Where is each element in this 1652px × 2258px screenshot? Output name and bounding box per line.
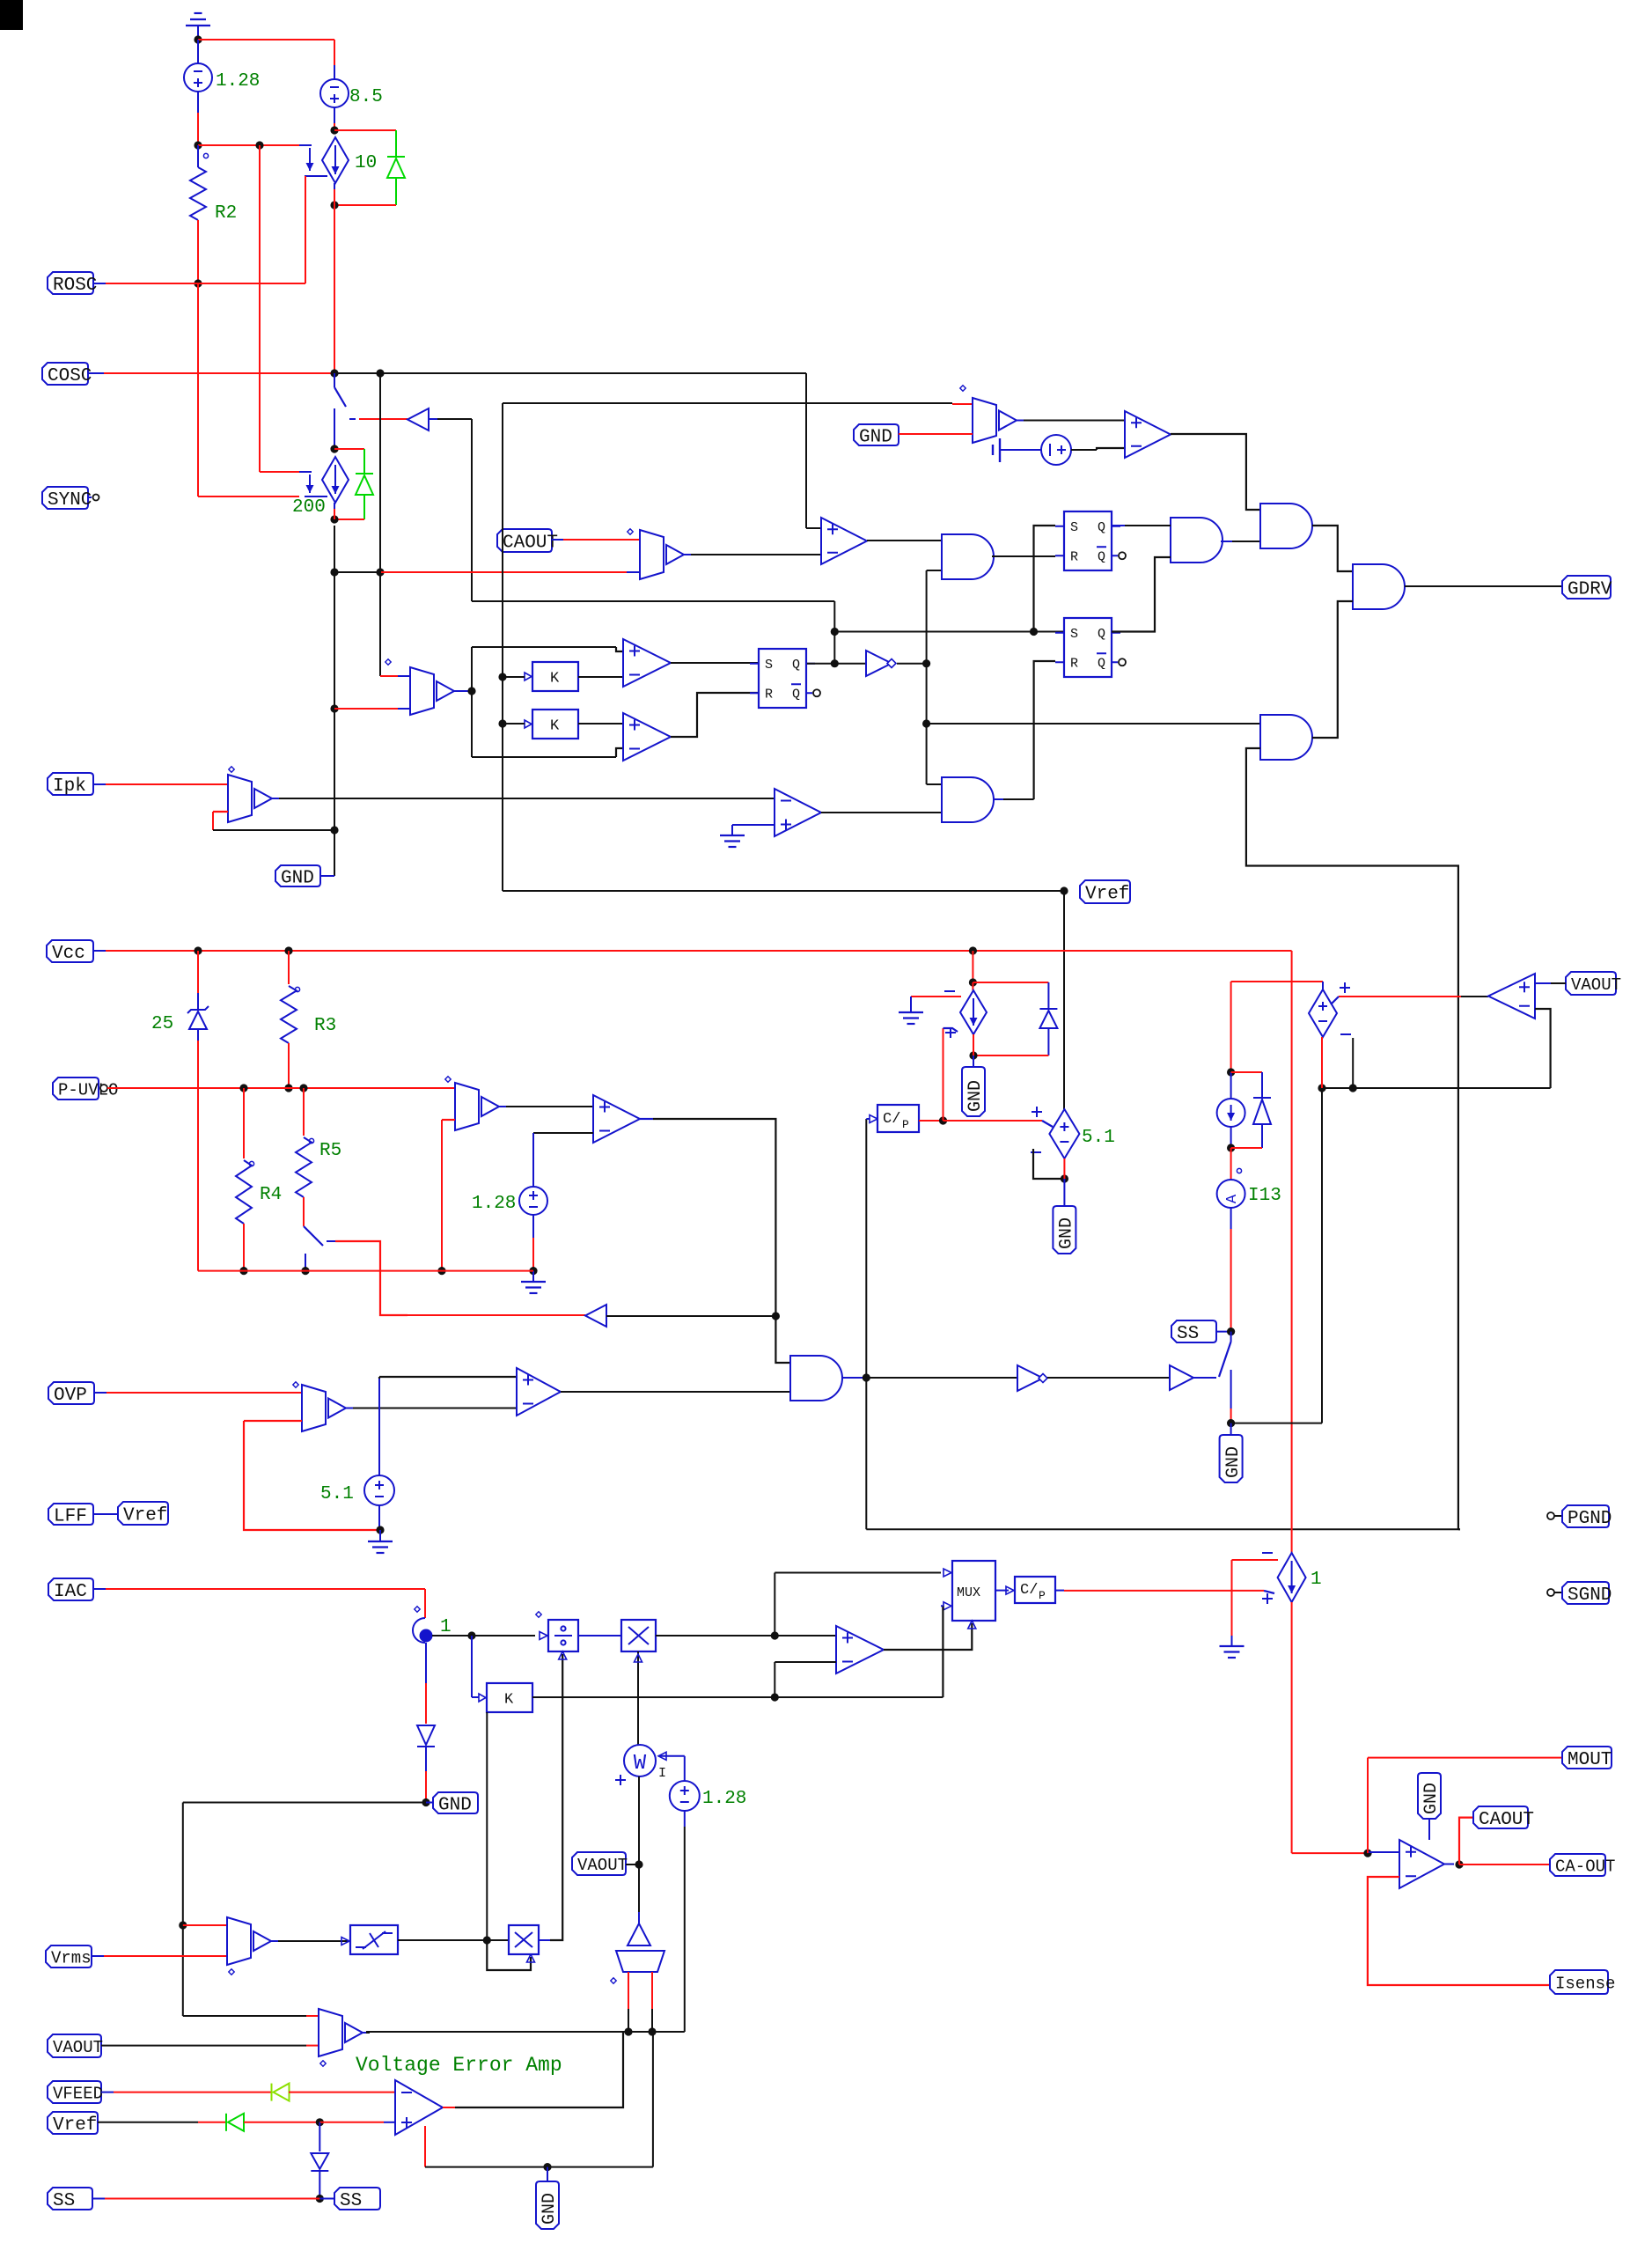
svg-text:CAOUT: CAOUT: [503, 533, 558, 554]
svg-text:P: P: [1039, 1589, 1046, 1602]
svg-text:SS: SS: [53, 2191, 75, 2211]
svg-text:Vref: Vref: [123, 1506, 167, 1526]
svg-text:GND: GND: [966, 1080, 986, 1112]
svg-text:Isense: Isense: [1555, 1974, 1615, 1993]
svg-text:OVP: OVP: [54, 1386, 87, 1406]
svg-text:5.1: 5.1: [1082, 1128, 1115, 1148]
svg-text:SYNC: SYNC: [48, 490, 92, 511]
svg-text:MOUT: MOUT: [1568, 1750, 1612, 1770]
svg-text:Q: Q: [1098, 549, 1105, 564]
svg-text:Q: Q: [1098, 520, 1105, 535]
svg-text:5.1: 5.1: [320, 1484, 354, 1504]
svg-text:VAOUT: VAOUT: [577, 1856, 628, 1875]
svg-text:K: K: [550, 718, 560, 735]
svg-text:Q: Q: [1098, 627, 1105, 642]
svg-text:PGND: PGND: [1568, 1509, 1612, 1529]
svg-text:K: K: [550, 671, 560, 688]
svg-text:P: P: [902, 1118, 909, 1131]
svg-text:Q: Q: [792, 687, 800, 702]
svg-text:ROSC: ROSC: [53, 276, 97, 296]
svg-text:25: 25: [151, 1014, 173, 1034]
svg-text:A: A: [1224, 1194, 1241, 1203]
svg-text:GND: GND: [540, 2193, 560, 2225]
svg-text:Vcc: Vcc: [52, 944, 85, 964]
svg-text:R: R: [1070, 549, 1078, 564]
svg-text:C/: C/: [1020, 1582, 1038, 1599]
svg-text:1.28: 1.28: [472, 1194, 516, 1214]
svg-text:SGND: SGND: [1568, 1585, 1612, 1606]
svg-text:Vref: Vref: [53, 2115, 97, 2136]
svg-text:200: 200: [292, 497, 326, 518]
svg-text:S: S: [1070, 627, 1078, 642]
svg-text:1.28: 1.28: [702, 1789, 746, 1809]
svg-text:R4: R4: [260, 1185, 282, 1205]
svg-text:VFEED: VFEED: [53, 2084, 103, 2103]
svg-text:CA-OUT: CA-OUT: [1555, 1857, 1615, 1876]
svg-text:R5: R5: [319, 1141, 341, 1161]
svg-text:Vrms: Vrms: [51, 1948, 92, 1967]
svg-text:Vref: Vref: [1085, 885, 1129, 905]
svg-text:Ipk: Ipk: [53, 776, 86, 797]
svg-text:GND: GND: [1223, 1446, 1244, 1478]
svg-text:R3: R3: [314, 1016, 336, 1036]
svg-text:IAC: IAC: [54, 1582, 87, 1602]
svg-text:LFF: LFF: [54, 1507, 87, 1527]
svg-text:GND: GND: [859, 428, 892, 448]
svg-text:VAOUT: VAOUT: [53, 2038, 103, 2057]
svg-text:Q: Q: [1098, 656, 1105, 671]
svg-text:Q: Q: [792, 658, 800, 673]
svg-text:CAOUT: CAOUT: [1479, 1810, 1534, 1830]
svg-text:S: S: [765, 658, 773, 673]
svg-text:R2: R2: [215, 203, 237, 224]
svg-text:Voltage Error Amp: Voltage Error Amp: [356, 2054, 562, 2077]
svg-text:VAOUT: VAOUT: [1571, 975, 1621, 995]
svg-text:GDRV: GDRV: [1568, 580, 1612, 600]
svg-text:SS: SS: [340, 2191, 362, 2211]
svg-text:1: 1: [440, 1617, 452, 1637]
svg-text:I: I: [658, 1766, 666, 1781]
svg-text:COSC: COSC: [48, 366, 92, 386]
svg-text:W: W: [634, 1752, 647, 1776]
svg-text:GND: GND: [1057, 1217, 1077, 1249]
svg-text:1: 1: [1311, 1570, 1322, 1590]
svg-text:C/: C/: [883, 1111, 900, 1128]
svg-text:K: K: [504, 1692, 514, 1709]
svg-text:I13: I13: [1248, 1186, 1281, 1206]
svg-text:R: R: [1070, 656, 1078, 671]
svg-text:P-UVLO: P-UVLO: [58, 1080, 118, 1100]
svg-text:GND: GND: [281, 869, 314, 889]
svg-text:SS: SS: [1177, 1324, 1199, 1344]
svg-text:MUX: MUX: [957, 1585, 980, 1600]
svg-text:8.5: 8.5: [349, 87, 383, 107]
svg-text:S: S: [1070, 520, 1078, 535]
svg-text:10: 10: [355, 153, 377, 173]
svg-text:R: R: [765, 687, 773, 702]
svg-text:GND: GND: [1421, 1783, 1442, 1814]
svg-text:1.28: 1.28: [216, 71, 260, 92]
svg-text:GND: GND: [438, 1796, 472, 1816]
